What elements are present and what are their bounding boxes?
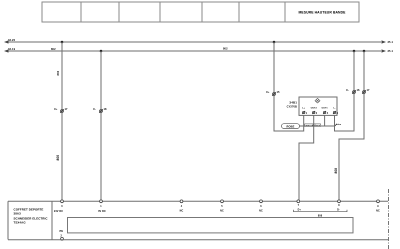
svg-text:7: 7 <box>298 204 300 207</box>
wire 806 (24V to terminal) <box>61 42 63 201</box>
svg-text:marron: marron <box>305 125 314 127</box>
svg-text:bleu: bleu <box>336 124 341 126</box>
connector X- pin 16 <box>346 88 360 94</box>
node bus1/X+15 junction <box>273 41 276 44</box>
svg-text:OUT2: OUT2 <box>311 108 318 110</box>
svg-text:D+: D+ <box>298 208 302 211</box>
svg-text:2: 2 <box>316 112 318 115</box>
svg-text:15: 15 <box>277 90 281 94</box>
svg-text:MESURE HAUTEUR BANDE: MESURE HAUTEUR BANDE <box>298 11 346 15</box>
svg-text:6: 6 <box>260 205 262 208</box>
node bus2/pin17 junction <box>363 50 366 53</box>
svg-text:1: 1 <box>306 112 308 115</box>
arrow left bus1 <box>4 40 9 43</box>
cable bracket 808 <box>294 210 348 212</box>
conductor label blanc <box>313 124 320 127</box>
svg-text:802: 802 <box>223 47 228 51</box>
svg-text:OUT1: OUT1 <box>321 108 328 110</box>
svg-text:5: 5 <box>221 205 223 208</box>
svg-text:X-: X- <box>346 88 349 92</box>
svg-text:38A3: 38A3 <box>14 212 22 216</box>
svg-text:35-1: 35-1 <box>388 40 394 44</box>
terminal 5 NC <box>220 200 224 213</box>
svg-text:NC: NC <box>180 210 184 213</box>
svg-text:NC: NC <box>259 210 263 213</box>
svg-text:X-: X- <box>93 107 96 111</box>
svg-text:3: 3 <box>337 112 339 115</box>
terminal 6 NC <box>259 200 263 213</box>
terminal 9 NC <box>376 200 380 213</box>
header strip <box>42 2 359 22</box>
svg-text:34B1: 34B1 <box>289 100 297 104</box>
pin 4 <box>323 111 329 115</box>
wire OUT2 to terminal 7 <box>299 115 314 201</box>
node bus2/X-16 junction <box>353 50 356 53</box>
svg-text:X+: X+ <box>266 90 270 94</box>
coffret bottom edge <box>8 239 388 241</box>
arrow left bus2 <box>4 49 9 52</box>
svg-text:17: 17 <box>367 88 371 92</box>
coffret label text <box>14 208 49 225</box>
pin 1 <box>302 111 308 115</box>
svg-text:808: 808 <box>334 168 338 174</box>
svg-text:2: 2 <box>61 234 63 237</box>
connector X+ pin 15 <box>266 90 280 96</box>
connector X+ pin 17 <box>54 107 68 113</box>
svg-text:4: 4 <box>181 205 183 208</box>
sensor 34B1 box <box>299 97 337 115</box>
svg-text:16: 16 <box>357 88 361 92</box>
conductor label bleu <box>335 124 337 126</box>
terminal 7 D+ <box>297 200 302 211</box>
svg-text:PE: PE <box>60 229 64 233</box>
svg-text:17: 17 <box>65 107 69 111</box>
svg-text:X+: X+ <box>54 107 58 111</box>
svg-text:4: 4 <box>327 112 329 115</box>
svg-text:CY270B: CY270B <box>287 104 297 108</box>
conductor label marron <box>305 124 313 127</box>
terminal 1 (0V DC) <box>98 200 106 213</box>
svg-text:35-1: 35-1 <box>388 49 394 53</box>
svg-text:L+: L+ <box>302 108 305 110</box>
node bus2/wire 0V junction <box>100 50 103 53</box>
terminal 8 D- <box>337 200 340 211</box>
svg-text:808: 808 <box>318 214 323 217</box>
svg-text:NC: NC <box>220 210 224 213</box>
terminal 4 NC <box>180 200 184 213</box>
svg-text:33-19: 33-19 <box>8 47 16 51</box>
coffret top edge <box>8 200 388 202</box>
svg-text:0: 0 <box>61 205 63 208</box>
svg-text:802: 802 <box>51 47 56 51</box>
svg-text:L-: L- <box>333 108 335 110</box>
svg-text:ROBE: ROBE <box>287 124 295 128</box>
svg-text:8: 8 <box>338 204 340 207</box>
pin 2 <box>312 111 318 115</box>
svg-text:NC: NC <box>376 210 380 213</box>
connector pin 17 <box>362 88 370 94</box>
wire bus2 to terminal 8 <box>339 51 364 201</box>
cable tag oval ROBE <box>282 124 300 129</box>
wire bus1 to sensor L+ <box>274 42 304 131</box>
svg-text:0V DC: 0V DC <box>98 210 106 213</box>
wire L- to bus2 via X-16 <box>335 51 355 131</box>
svg-text:33-20: 33-20 <box>8 38 16 42</box>
svg-text:24V DC: 24V DC <box>54 210 63 213</box>
coffret name box <box>8 201 52 239</box>
terminal strip rectangle <box>68 218 354 233</box>
connector X- pin 18 <box>93 107 107 113</box>
bus 24V (net 802 top) <box>4 38 394 44</box>
svg-text:806: 806 <box>56 70 60 75</box>
svg-text:9: 9 <box>377 205 379 208</box>
PE terminal <box>60 229 64 240</box>
wire 0V (bus2 to terminal) <box>100 51 102 201</box>
arrow right bus2 <box>382 49 387 52</box>
cable line <box>283 125 335 127</box>
svg-text:18: 18 <box>104 107 108 111</box>
bus 0V (net 802) <box>4 47 394 53</box>
arrow right bus1 <box>382 40 387 43</box>
svg-text:806: 806 <box>56 155 60 161</box>
svg-text:TSX4AG: TSX4AG <box>14 220 27 224</box>
enclosure boundary dash-dot <box>388 189 390 249</box>
terminal 0 (24V DC) <box>54 200 64 213</box>
pin stub OUT1 <box>324 115 326 126</box>
svg-text:blanc: blanc <box>314 125 321 127</box>
svg-text:1: 1 <box>100 205 102 208</box>
ifm diamond logo <box>315 98 320 103</box>
pin 3 <box>333 111 339 115</box>
node bus1/wire 806 junction <box>61 41 64 44</box>
svg-text:D-: D- <box>337 208 340 211</box>
